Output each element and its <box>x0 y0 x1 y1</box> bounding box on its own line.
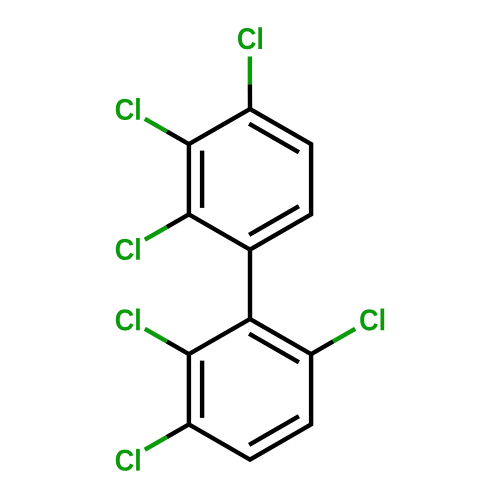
atom label Cl3 (mid left chlorine) <box>116 238 140 260</box>
atom label Cl4 (lower left chlorine) <box>116 309 140 331</box>
bond C6'-Cl4 chlorine half (lower left) <box>145 329 167 342</box>
double bond inner line C1'=C2' (ring B top-right) <box>249 334 299 363</box>
ring A (top benzene ring) outline C1-C2-C3-C4-C5-C6 <box>189 109 311 250</box>
double bond inner line C5'=C6' (ring B left) <box>200 361 204 418</box>
double bond inner line C3=C4 (ring A bottom-right) <box>249 206 299 235</box>
double bond inner line C1=C2 (ring A top-right) <box>249 124 299 153</box>
bond C6'-Cl4 carbon half (lower left) <box>167 341 189 354</box>
ring B (bottom benzene ring) outline C1'-C2'-C3'-C4'-C5'-C6' <box>189 319 311 460</box>
double bond inner line C3'=C4' (ring B bottom-right) <box>249 416 299 445</box>
atom label Cl5 (right chlorine) <box>360 309 384 331</box>
bond C5-Cl3 carbon half (mid left) <box>167 214 189 227</box>
bond C2'-Cl5 chlorine half (right) <box>333 329 355 342</box>
bond C5'-Cl6 chlorine half (bottom left) <box>145 437 167 450</box>
biphenyl single bond C4-C1' (central link) <box>248 250 252 319</box>
bond C6-Cl2 carbon half (upper left) <box>167 131 189 144</box>
atom label Cl2 (upper left chlorine) <box>116 98 140 120</box>
bond C6-Cl2 chlorine half (upper left) <box>145 119 167 132</box>
bond C5'-Cl6 carbon half (bottom left) <box>167 424 189 437</box>
bond C1-Cl1 carbon half (top) <box>248 84 253 109</box>
bond C5-Cl3 chlorine half (mid left) <box>145 227 167 240</box>
bond C1-Cl1 chlorine half (top) <box>248 57 252 85</box>
atom label Cl1 (top chlorine) <box>238 27 262 49</box>
atom label Cl6 (bottom left chlorine) <box>116 449 140 471</box>
double bond inner line C5=C6 (ring A left) <box>200 151 204 208</box>
bond C2'-Cl5 carbon half (right) <box>311 341 333 354</box>
